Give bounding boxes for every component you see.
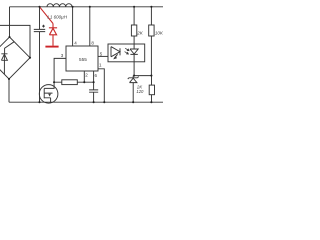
LED emitter lead arrow [114, 54, 118, 58]
wire AC input [0, 25, 30, 57]
optocoupler U2 box [108, 44, 145, 62]
junction 120R at bottom rail [150, 101, 152, 103]
555 pin5 wire [98, 55, 108, 57]
wires resistor 120 [151, 76, 153, 103]
IC U1 555 timer box [66, 46, 98, 71]
junction pin1 at bottom rail [103, 101, 105, 103]
junction pin2 node [83, 81, 85, 83]
555 pin6 wire [93, 71, 95, 82]
junction C1 at bottom rail [38, 101, 40, 103]
555 pin8 wire [89, 7, 91, 46]
555 pin1 wire [98, 69, 104, 102]
junction pin8 at top rail [89, 6, 91, 8]
resistor 10K [149, 25, 154, 36]
wires resistor 2K [133, 7, 135, 44]
red diode bottom bar [45, 46, 58, 48]
resistor 120 [149, 85, 154, 95]
junction LED-zener node [133, 75, 135, 77]
555 pin2 wire [83, 71, 85, 82]
555 pin4 wire [72, 7, 74, 46]
wire feedback net [134, 75, 151, 77]
junction 10K at top rail [150, 6, 152, 8]
svg-text:L1 600µH: L1 600µH [47, 14, 67, 19]
capacitor C2 [89, 82, 98, 102]
junction C1 at top rail [38, 6, 40, 8]
photodiode in optocoupler [130, 44, 138, 76]
capacitor C1 plates [34, 29, 45, 31]
junction bridge top vertex [8, 36, 10, 38]
junction zener at bottom rail [132, 101, 134, 103]
junction 2K at top rail [133, 6, 135, 8]
svg-text:2K: 2K [136, 30, 144, 35]
bridge rectifier BR1 diamond [0, 37, 30, 79]
diode inside bridge [1, 42, 14, 74]
transistor Q1 internals [44, 82, 54, 102]
capacitor C1 wires [39, 7, 41, 102]
transistor Q1 circle [39, 85, 58, 104]
junction pin6 node [93, 81, 95, 83]
junction pin3 node [53, 81, 55, 83]
junction C2 at bottom rail [93, 101, 95, 103]
wire top rail with corner to bridge [10, 7, 164, 37]
junction 10K feedback node [150, 75, 152, 77]
red diode D1 [49, 28, 57, 46]
wire bottom rail [9, 101, 163, 103]
svg-text:120: 120 [136, 89, 144, 94]
capacitor C1 plus sign [42, 25, 45, 28]
resistor 2K [131, 25, 136, 36]
resistor R gate [62, 80, 78, 85]
wire bridge to bottom rail [8, 79, 10, 102]
svg-text:555: 555 [79, 57, 87, 62]
svg-text:10K: 10K [155, 30, 164, 35]
inductor L1 [47, 4, 72, 7]
junction pin4 at top rail [72, 6, 74, 8]
wires resistor 10K [150, 7, 152, 76]
zener diode ZD [128, 76, 139, 103]
wire pin3 net [54, 81, 94, 83]
LED emitter in optocoupler [111, 47, 120, 57]
555 pin3 wire [54, 58, 66, 82]
red annotation: diagonal wire [40, 7, 58, 46]
light arrows in optocoupler [113, 48, 129, 59]
junction bridge right vertex [29, 57, 31, 59]
junction bridge bottom vertex [8, 78, 10, 80]
arrowhead of emitter lead [113, 56, 117, 60]
